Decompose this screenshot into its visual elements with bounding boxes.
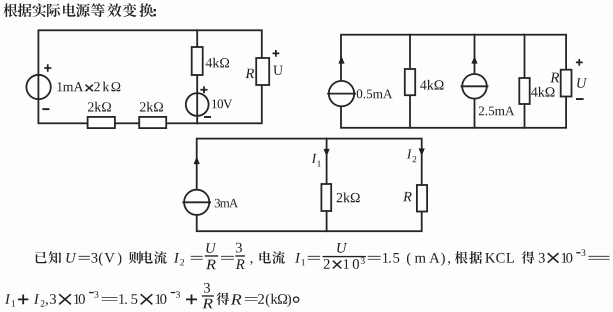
wire: circuit-2 branch with second 4kΩ	[524, 35, 526, 128]
fraction bar 3/R (line 1)	[235, 255, 245, 256]
text 根据 (line 1)	[455, 251, 482, 264]
label minus of U (circuit 2)	[576, 98, 584, 100]
wire: circuit-3 outer loop	[197, 139, 422, 232]
label + of U (circuit 1)	[273, 50, 280, 57]
arrow: current I1 direction (down)	[324, 149, 330, 157]
text 得 (line 2)	[217, 293, 230, 306]
equation line 2 math	[5, 283, 291, 308]
text 已知 (line 1)	[35, 251, 61, 263]
current source 2.5mA (circuit 2)	[462, 74, 488, 99]
label I2 (circuit 3)	[407, 150, 417, 163]
label minus of source 1mA×2kΩ	[42, 108, 49, 110]
resistor 2kΩ (circuit 3 middle branch)	[321, 184, 331, 211]
resistor 4kΩ (circuit 2, second branch)	[405, 69, 415, 95]
times sign in 1mA×2kΩ	[86, 85, 93, 92]
value label 2kΩ (left resistor, circuit 1)	[88, 102, 111, 112]
text 电流 (line 1)	[260, 251, 285, 264]
arrow: current I2 direction (down)	[419, 148, 425, 156]
label I1 (circuit 3)	[312, 154, 321, 167]
wire: circuit-1 outer loop	[38, 30, 261, 123]
fraction bar 3/R (line 2)	[202, 295, 214, 296]
voltage source 10V (circuit 1)	[186, 93, 209, 116]
times sign in 1.5×10⁻³ (line 2)	[141, 294, 153, 304]
value label 2kΩ (right resistor, circuit 1)	[140, 102, 163, 112]
value label 4kΩ (circuit 2 second branch)	[420, 80, 443, 90]
wire: circuit-3 middle branch	[326, 139, 328, 232]
label + of 10V source	[200, 86, 207, 93]
label + of source 1mA×2kΩ	[44, 64, 51, 71]
plus sign I1+I2 (line 2)	[18, 295, 28, 305]
label R (circuit 3)	[403, 192, 412, 201]
resistor 4kΩ (circuit 2, fourth branch)	[519, 78, 529, 104]
value label 4kΩ (circuit 2 fourth branch)	[531, 87, 554, 97]
label U (circuit 2)	[577, 78, 587, 88]
title text 根据实际电源等效变换	[3, 3, 153, 17]
superscript minus of first 10⁻³ (line 2)	[89, 292, 94, 293]
times sign in 3×10⁻³ (line 1)	[548, 253, 559, 263]
times sign in 3×10⁻³ (line 2)	[59, 294, 71, 304]
value label 3mA	[215, 199, 238, 208]
label R (circuit 2)	[550, 73, 559, 83]
current source 0.5mA (circuit 2)	[328, 81, 355, 106]
value label 2.5mA	[479, 107, 515, 116]
wire: circuit-2 branch with 4kΩ	[409, 35, 411, 128]
arrow: 3mA source current direction (up)	[194, 157, 200, 165]
value label 2kΩ (circuit 3)	[337, 193, 360, 203]
label minus of 10V source	[204, 116, 211, 118]
arrow: 2.5mA source current direction (up)	[471, 56, 477, 64]
resistor 4kΩ (circuit 1 middle branch)	[192, 47, 203, 75]
resistor R (circuit 2 right branch)	[561, 70, 572, 97]
superscript minus of 10⁻³ (line 1)	[576, 252, 580, 253]
wire: circuit-2 outer loop	[341, 35, 566, 128]
label R (circuit 1)	[245, 69, 254, 78]
arrow: 0.5mA source current direction (up)	[338, 56, 344, 64]
resistor 2kΩ (left, bottom wire of circuit 1)	[88, 117, 115, 128]
resistor R (circuit 3 right branch)	[417, 185, 427, 212]
text 得 (line 1)	[522, 251, 535, 263]
plus sign before 3/R (line 2)	[186, 295, 197, 305]
value label 10V	[212, 99, 232, 108]
current source 3mA (circuit 3)	[183, 190, 210, 215]
wire: circuit-2 branch with 2.5mA source	[474, 35, 476, 128]
ideographic full stop ring (line 2)	[294, 297, 299, 302]
wire: circuit-1 middle branch	[196, 30, 198, 123]
times sign in 2×10³ (line 1)	[333, 261, 341, 269]
value label 1mA×2kΩ	[57, 82, 120, 92]
fraction bar U/(2×10³) (line 1)	[323, 256, 366, 257]
text 则电流 (line 1)	[129, 251, 167, 264]
resistor R (circuit 1 right branch)	[256, 58, 269, 85]
resistor 2kΩ (right, bottom wire of circuit 1)	[139, 117, 166, 128]
value label 0.5mA	[357, 89, 393, 98]
value label 4kΩ (circuit 1)	[206, 58, 229, 68]
label U (circuit 1)	[273, 66, 283, 75]
title colon ：	[154, 9, 156, 16]
voltage source 1mA×2kΩ (circuit 1)	[26, 75, 50, 99]
fraction bar U/R (line 1)	[205, 255, 218, 256]
equation line 1 math	[66, 243, 609, 270]
label + of U (circuit 2)	[576, 59, 583, 66]
superscript minus of second 10⁻³ (line 2)	[171, 292, 176, 293]
